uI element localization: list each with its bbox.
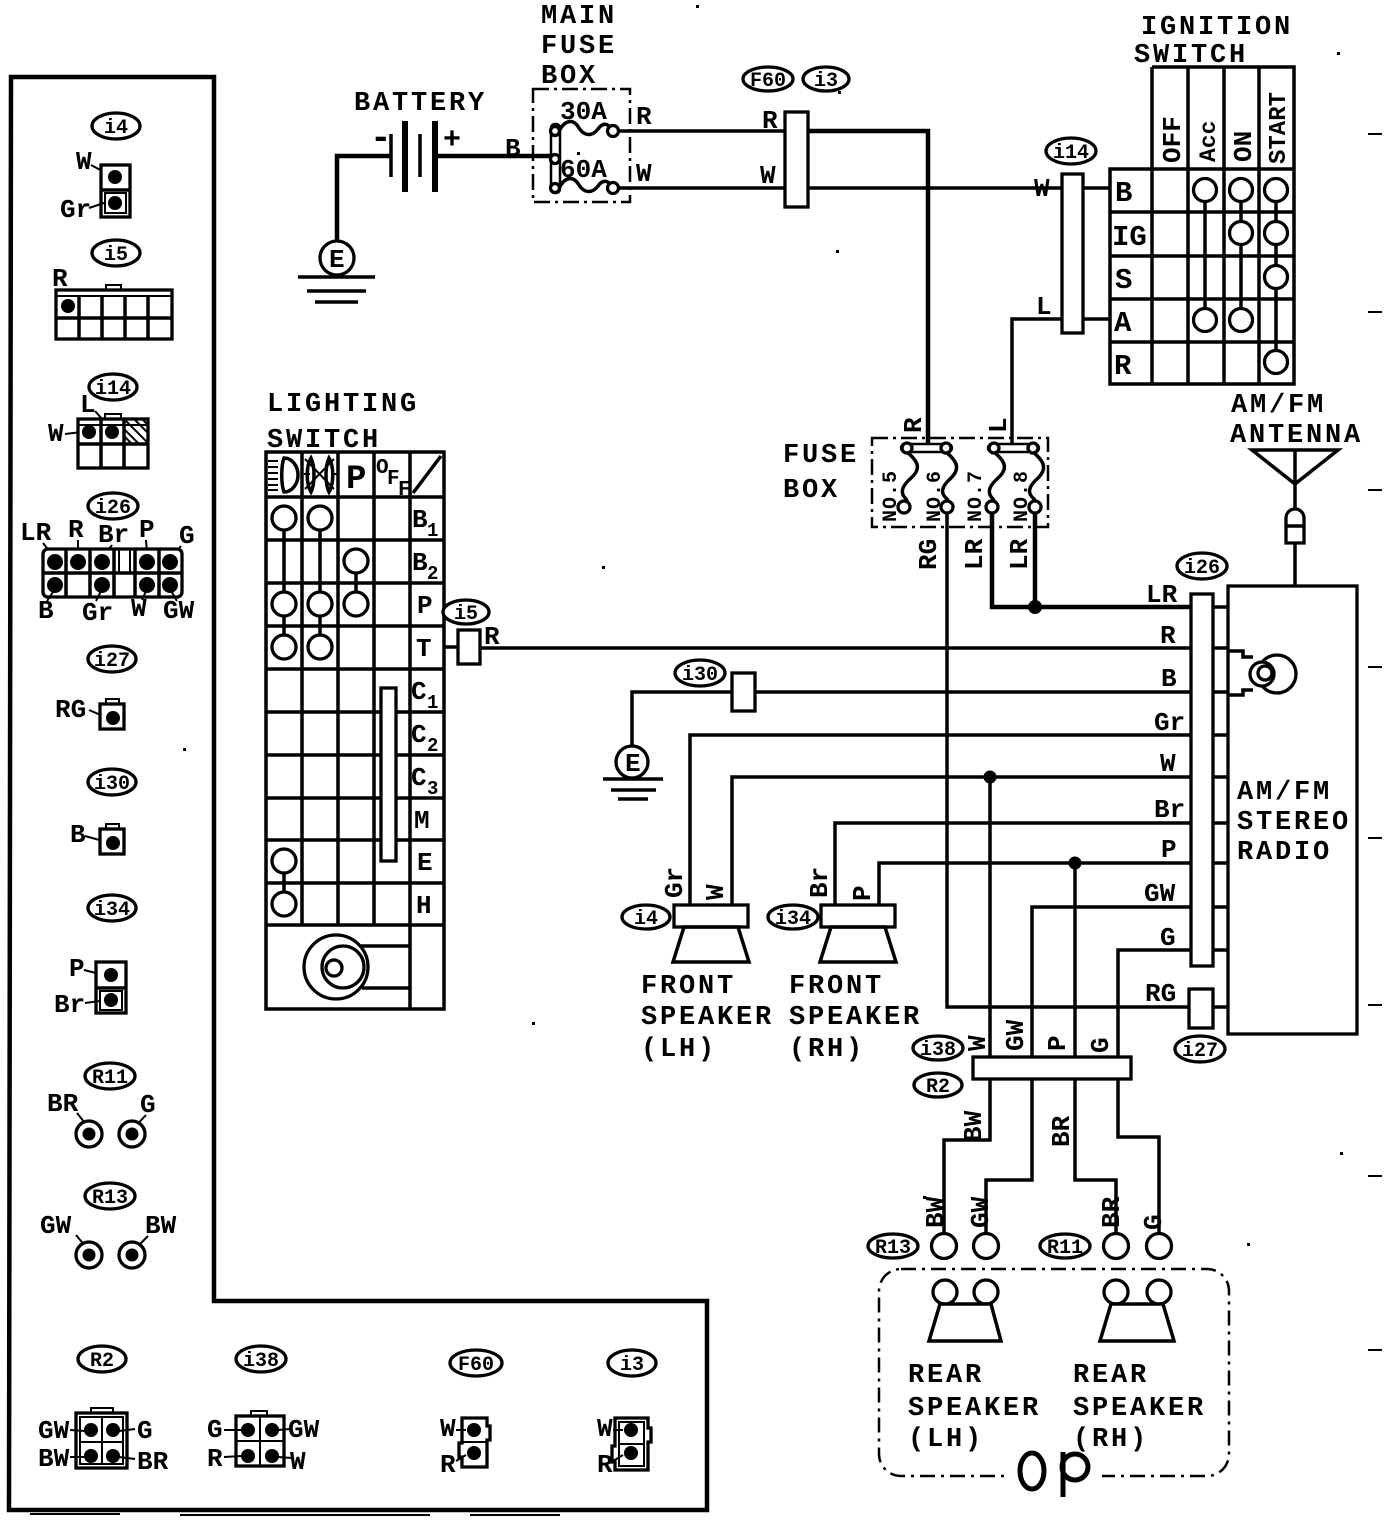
svg-text:R2: R2 xyxy=(90,1350,114,1373)
svg-text:GW: GW xyxy=(163,596,195,626)
svg-text:P: P xyxy=(69,954,85,984)
connector i4 pin label Gr xyxy=(60,195,104,225)
pin label R fuse box input xyxy=(899,417,929,433)
ignition contact link Acc xyxy=(1203,190,1207,320)
svg-text:-: - xyxy=(370,118,392,159)
svg-text:W: W xyxy=(48,419,64,449)
svg-text:P: P xyxy=(417,591,433,621)
lighting switch contacts row T xyxy=(272,635,332,659)
wire Br radio to front speaker RH xyxy=(835,823,1191,905)
connector R13 pin labels GW BW xyxy=(40,1211,177,1254)
svg-text:Gr: Gr xyxy=(82,598,113,628)
connector R2 body xyxy=(76,1408,127,1468)
svg-text:T: T xyxy=(416,634,432,664)
svg-text:E: E xyxy=(329,245,345,275)
connector i5 badge at lighting switch xyxy=(443,600,489,626)
svg-text:GW: GW xyxy=(966,1196,996,1228)
svg-text:i30: i30 xyxy=(682,664,718,687)
wire L ignition switch to fuse box xyxy=(1012,319,1110,445)
connector i27 badge xyxy=(88,646,136,673)
connector i14 pin label W xyxy=(48,419,82,449)
svg-text:i38: i38 xyxy=(920,1039,956,1062)
svg-text:i27: i27 xyxy=(94,650,130,673)
lighting switch contacts row B1 xyxy=(272,506,332,530)
svg-text:BOX: BOX xyxy=(541,62,598,92)
lighting switch row label M xyxy=(414,806,430,836)
lighting switch icon OFF xyxy=(376,457,411,502)
svg-text:R: R xyxy=(440,1450,456,1480)
ignition contacts row IG xyxy=(1230,222,1288,245)
lighting switch contact row B2 xyxy=(344,549,368,573)
front speaker RH labels xyxy=(805,867,878,901)
svg-text:(RH): (RH) xyxy=(789,1035,865,1065)
svg-text:NO.7: NO.7 xyxy=(965,470,988,522)
lighting switch table grid xyxy=(266,452,444,1009)
radio antenna jack xyxy=(1229,651,1296,695)
lighting switch row label C1 xyxy=(411,677,438,714)
fuse box input bar 1 xyxy=(901,443,952,453)
svg-text:BW: BW xyxy=(145,1211,177,1241)
svg-text:Acc: Acc xyxy=(1196,121,1222,162)
svg-text:R: R xyxy=(636,102,652,132)
wire RG fuse NO.6 to connector i27 xyxy=(914,513,1189,1007)
svg-text:i3: i3 xyxy=(620,1354,644,1377)
svg-text:G: G xyxy=(207,1415,223,1445)
lighting switch row label C3 xyxy=(411,763,438,800)
rear speaker RH SP4 xyxy=(1100,1280,1174,1341)
radio pin stubs xyxy=(1213,607,1228,1007)
svg-text:BW: BW xyxy=(959,1110,989,1142)
fuse box input bar 2 xyxy=(988,443,1039,453)
svg-text:FUSE: FUSE xyxy=(541,32,617,62)
wire GW rear connector to speaker xyxy=(986,1079,1032,1234)
svg-text:i38: i38 xyxy=(243,1350,279,1373)
ignition row label B xyxy=(1115,177,1132,210)
svg-text:GW: GW xyxy=(288,1415,320,1445)
pin label RG xyxy=(1145,979,1176,1009)
connector i30 body xyxy=(100,824,124,854)
svg-text:AM/FM: AM/FM xyxy=(1237,778,1332,808)
front speaker LH labels xyxy=(660,867,731,900)
fuse box label xyxy=(783,441,859,506)
connector i30 badge at ground xyxy=(675,660,725,687)
connector i27 badge at radio xyxy=(1175,1036,1225,1063)
svg-text:IGNITION: IGNITION xyxy=(1141,13,1293,43)
svg-text:B: B xyxy=(412,505,428,535)
pin label GW xyxy=(1144,879,1176,909)
svg-text:REAR: REAR xyxy=(1073,1361,1149,1391)
connector i38 pin labels G GW R W xyxy=(207,1415,320,1477)
svg-text:W: W xyxy=(636,159,652,189)
svg-text:SPEAKER: SPEAKER xyxy=(789,1003,922,1033)
svg-text:Gr: Gr xyxy=(1154,708,1185,738)
pin label W at connector F60 xyxy=(760,161,776,191)
svg-text:i34: i34 xyxy=(775,908,811,931)
svg-text:F: F xyxy=(398,479,411,502)
connector R2 badge xyxy=(78,1346,126,1373)
svg-text:SPEAKER: SPEAKER xyxy=(1073,1394,1206,1424)
svg-text:1: 1 xyxy=(427,692,438,714)
svg-text:R: R xyxy=(68,515,84,545)
svg-text:i26: i26 xyxy=(95,497,131,520)
connector i27 pin label RG xyxy=(55,695,103,725)
connector i38 badge xyxy=(236,1346,286,1373)
ground E radio xyxy=(603,746,663,799)
rear speaker RH label xyxy=(1073,1361,1206,1455)
svg-text:RG: RG xyxy=(914,539,944,570)
ignition column label START xyxy=(1266,92,1293,164)
svg-text:W: W xyxy=(701,884,731,900)
svg-text:W: W xyxy=(760,161,776,191)
svg-text:W: W xyxy=(440,1414,456,1444)
ignition switch table xyxy=(1110,67,1294,384)
svg-text:B: B xyxy=(38,596,54,626)
svg-text:W: W xyxy=(76,147,92,177)
connector F60 body xyxy=(459,1418,490,1467)
svg-text:Br: Br xyxy=(805,867,835,898)
svg-text:B: B xyxy=(412,548,428,578)
svg-text:G: G xyxy=(137,1416,153,1446)
ignition row label S xyxy=(1115,264,1132,297)
connector i14 badge xyxy=(1046,138,1096,165)
pin label W xyxy=(1160,749,1176,779)
svg-text:ANTENNA: ANTENNA xyxy=(1230,421,1363,451)
connector i30 pin label B xyxy=(70,820,103,850)
main fuse box outline xyxy=(533,89,630,202)
connector i3 badge xyxy=(803,67,849,93)
rear speaker pin labels BW GW BR G xyxy=(921,1196,1169,1230)
svg-text:C: C xyxy=(411,720,427,750)
svg-text:R: R xyxy=(207,1444,223,1474)
svg-text:Gr: Gr xyxy=(60,195,91,225)
svg-text:Br: Br xyxy=(1154,795,1185,825)
svg-text:i3: i3 xyxy=(814,70,838,93)
ignition contact link ON xyxy=(1239,190,1243,320)
connector i26 badge xyxy=(88,493,138,520)
pin label P xyxy=(1161,835,1177,865)
fuse 30A xyxy=(559,97,619,137)
svg-text:i34: i34 xyxy=(94,899,130,922)
wire G rear connector to speaker xyxy=(1118,1079,1159,1234)
svg-text:LIGHTING: LIGHTING xyxy=(267,390,419,420)
lighting switch icon low beam xyxy=(268,458,298,492)
svg-text:B: B xyxy=(1115,177,1132,210)
main fuse box bus bar xyxy=(551,124,561,193)
svg-text:Br: Br xyxy=(98,520,129,550)
svg-text:3: 3 xyxy=(427,778,438,800)
svg-text:C: C xyxy=(411,763,427,793)
svg-text:W: W xyxy=(963,1035,993,1051)
pin label B xyxy=(1161,664,1177,694)
connector i26 bottom pin labels B Gr W GW xyxy=(38,589,195,628)
lighting switch contacts row P xyxy=(272,592,368,616)
connector R11 pins xyxy=(76,1121,145,1147)
connector R2 pin labels GW G BW BR xyxy=(38,1416,169,1477)
svg-text:R11: R11 xyxy=(92,1067,128,1090)
lighting switch label xyxy=(267,390,419,456)
svg-text:ON: ON xyxy=(1229,131,1259,162)
svg-text:BW: BW xyxy=(38,1444,70,1474)
svg-text:GW: GW xyxy=(40,1211,72,1241)
svg-text:i4: i4 xyxy=(104,117,128,140)
pin label R xyxy=(1160,621,1176,651)
connector R2 badge at rear xyxy=(914,1073,962,1099)
rear harness pins xyxy=(932,1234,1172,1259)
rear speaker LH SP3 xyxy=(929,1280,1001,1341)
connector i38 body xyxy=(236,1411,284,1466)
connector i5 body xyxy=(56,285,172,339)
rear speaker LH label xyxy=(908,1361,1041,1455)
svg-text:G: G xyxy=(1160,923,1176,953)
ignition row label IG xyxy=(1112,221,1147,254)
svg-text:F60: F60 xyxy=(458,1354,494,1377)
svg-text:(LH): (LH) xyxy=(908,1425,984,1455)
lighting switch row label B1 xyxy=(412,505,438,542)
svg-text:R: R xyxy=(1160,621,1176,651)
svg-text:G: G xyxy=(140,1090,156,1120)
connector i4 body xyxy=(101,165,130,217)
fuse 60A xyxy=(559,155,619,194)
svg-text:P: P xyxy=(1161,835,1177,865)
svg-text:IG: IG xyxy=(1112,221,1147,254)
wire B radio to ground xyxy=(632,692,1191,747)
connector i4 pin label W xyxy=(76,147,106,177)
wire W radio to front speaker LH xyxy=(732,777,1191,905)
svg-text:Br: Br xyxy=(54,990,85,1020)
svg-text:RG: RG xyxy=(1145,979,1176,1009)
svg-text:A: A xyxy=(1114,307,1132,340)
wire Gr radio to front speaker LH xyxy=(690,735,1191,905)
ignition column label Acc xyxy=(1196,121,1222,162)
connector i27 at radio xyxy=(1189,989,1213,1028)
main fuse box label xyxy=(541,2,617,92)
svg-text:LR: LR xyxy=(960,538,990,570)
svg-text:SPEAKER: SPEAKER xyxy=(641,1003,774,1033)
lighting switch row label C2 xyxy=(411,720,438,757)
pin label W at connector i14 xyxy=(1034,174,1050,204)
svg-text:(LH): (LH) xyxy=(641,1035,717,1065)
wire P branch to rear xyxy=(1069,857,1082,1059)
wire R to fuse box input xyxy=(808,131,928,445)
svg-text:W: W xyxy=(597,1414,613,1444)
ignition row label A xyxy=(1114,307,1132,340)
lighting switch slider xyxy=(381,688,396,861)
ignition switch label xyxy=(1134,13,1293,71)
battery BAT1 xyxy=(370,118,461,192)
svg-text:E: E xyxy=(417,848,433,878)
lighting switch icon head lamp xyxy=(304,458,337,492)
svg-text:L: L xyxy=(984,417,1014,433)
svg-text:i5: i5 xyxy=(454,603,478,626)
svg-text:LR: LR xyxy=(20,518,52,548)
pin label Gr xyxy=(1154,708,1185,738)
svg-text:BR: BR xyxy=(47,1089,79,1119)
svg-text:P: P xyxy=(1043,1035,1073,1051)
svg-text:GW: GW xyxy=(1144,879,1176,909)
svg-text:R2: R2 xyxy=(926,1076,950,1099)
connector i27 body xyxy=(100,699,124,729)
front speaker RH label xyxy=(789,972,922,1065)
pin label L fuse box input xyxy=(984,417,1014,433)
connector legend panel border xyxy=(9,77,707,1515)
radio label xyxy=(1237,778,1351,868)
lighting switch contact links column 2 xyxy=(318,518,322,647)
wire BR rear connector to speaker xyxy=(1047,1079,1116,1234)
svg-text:LR: LR xyxy=(1005,538,1035,570)
lighting switch header slash xyxy=(413,456,441,493)
connector i30 pass-through xyxy=(732,673,755,711)
svg-text:P: P xyxy=(848,885,878,901)
connector R13 pins xyxy=(76,1242,145,1268)
svg-text:R: R xyxy=(899,417,929,433)
front speaker LH label xyxy=(641,972,774,1065)
connector R11 badge xyxy=(85,1063,135,1090)
antenna label xyxy=(1230,391,1363,451)
connector i14 body xyxy=(78,414,148,468)
svg-text:P: P xyxy=(346,461,366,499)
connector i5 body at lighting switch xyxy=(458,630,480,664)
page margin ticks xyxy=(1368,134,1382,1350)
pin label Br xyxy=(1154,795,1185,825)
connector i5 badge xyxy=(92,240,140,267)
connector i38 badge at rear xyxy=(913,1036,963,1062)
svg-text:OFF: OFF xyxy=(1158,116,1188,163)
connector i4 badge xyxy=(92,113,140,140)
svg-text:E: E xyxy=(625,749,641,779)
connector i5 pin label R xyxy=(52,264,68,301)
ignition contact row S xyxy=(1265,266,1288,289)
connector i3 body xyxy=(612,1418,651,1470)
connector R11 pin labels BR G xyxy=(47,1089,156,1133)
svg-text:W: W xyxy=(131,594,147,624)
svg-text:i27: i27 xyxy=(1182,1040,1218,1063)
lighting switch contact links column 1 xyxy=(282,518,286,904)
svg-text:BR: BR xyxy=(137,1447,169,1477)
front speaker RH SP2 xyxy=(820,905,896,962)
front speaker LH SP1 xyxy=(673,905,749,962)
pin label L at connector i14 xyxy=(1036,292,1052,322)
wire BW rear connector to speaker xyxy=(944,1079,990,1234)
svg-text:1: 1 xyxy=(427,520,438,542)
svg-text:BATTERY: BATTERY xyxy=(354,89,487,119)
connector i3 pin labels W R xyxy=(597,1414,623,1480)
svg-text:B: B xyxy=(505,134,521,164)
svg-text:G: G xyxy=(1139,1214,1169,1230)
connector R11 badge at rear xyxy=(1040,1234,1090,1260)
svg-text:2: 2 xyxy=(427,563,438,585)
svg-text:+: + xyxy=(443,124,461,158)
svg-text:REAR: REAR xyxy=(908,1361,984,1391)
wire P radio to front speaker RH xyxy=(879,863,1191,905)
svg-text:FUSE: FUSE xyxy=(783,441,859,471)
svg-text:LR: LR xyxy=(1146,580,1178,610)
connector i30 badge xyxy=(88,769,136,796)
svg-text:STEREO: STEREO xyxy=(1237,808,1351,838)
connector i34 pin label Br xyxy=(54,990,100,1020)
svg-text:C: C xyxy=(411,677,427,707)
connector R13 badge xyxy=(85,1183,135,1210)
lighting switch row label P xyxy=(417,591,433,621)
svg-text:i5: i5 xyxy=(104,244,128,267)
svg-text:GW: GW xyxy=(38,1416,70,1446)
pin label LR xyxy=(1146,580,1178,610)
svg-text:B: B xyxy=(70,820,86,850)
svg-text:BOX: BOX xyxy=(783,476,840,506)
svg-text:BR: BR xyxy=(1047,1115,1077,1147)
svg-text:NO.5: NO.5 xyxy=(880,470,903,522)
ignition row label R xyxy=(1114,350,1132,383)
connector i14 badge xyxy=(89,374,137,401)
pin label R at connector i5 xyxy=(484,622,500,652)
wire R lighting switch to radio xyxy=(480,646,1191,650)
wire LR fuse NO.7 to radio xyxy=(960,513,1191,607)
ground E battery xyxy=(298,241,375,302)
lighting switch rheostat xyxy=(304,935,410,999)
svg-text:2: 2 xyxy=(427,735,438,757)
connector F60/i3 pass-through xyxy=(785,112,808,207)
lighting switch contact link column 3 xyxy=(354,561,358,604)
svg-text:RG: RG xyxy=(55,695,86,725)
ignition contact link START xyxy=(1274,190,1278,362)
ignition contacts row B xyxy=(1194,179,1288,202)
svg-text:R: R xyxy=(762,106,778,136)
lighting switch row label T xyxy=(416,634,432,664)
svg-text:BW: BW xyxy=(921,1196,951,1228)
svg-text:FRONT: FRONT xyxy=(641,972,736,1002)
radio box xyxy=(1228,586,1357,1034)
fuse NO.7 xyxy=(965,452,1004,522)
antenna plug xyxy=(1286,509,1304,586)
connector i4 badge at speaker xyxy=(622,905,670,931)
svg-text:W: W xyxy=(1034,174,1050,204)
connector i34 badge xyxy=(88,895,136,922)
svg-text:H: H xyxy=(416,891,432,921)
svg-text:i14: i14 xyxy=(95,378,131,401)
pin label G xyxy=(1160,923,1176,953)
wire battery negative to ground xyxy=(337,156,390,241)
lighting switch row label H xyxy=(416,891,432,921)
connector i38/R2 bar xyxy=(973,1057,1131,1079)
svg-text:FRONT: FRONT xyxy=(789,972,884,1002)
connector i14 pin label L xyxy=(80,390,110,428)
svg-text:Gr: Gr xyxy=(660,867,690,898)
svg-text:B: B xyxy=(1161,664,1177,694)
svg-text:R: R xyxy=(1114,350,1132,383)
ignition contacts row A xyxy=(1194,309,1253,332)
ignition contact row R xyxy=(1265,351,1288,374)
svg-text:BR: BR xyxy=(1097,1196,1127,1228)
pin label R at connector F60 xyxy=(762,106,778,136)
ignition column label OFF xyxy=(1158,116,1188,163)
svg-text:START: START xyxy=(1266,92,1293,164)
rear harness labels W GW P G xyxy=(963,1019,1116,1053)
connector i34 body xyxy=(96,962,126,1013)
svg-text:W: W xyxy=(1160,749,1176,779)
lighting switch row label B2 xyxy=(412,548,438,585)
wire W main fuse box to connector i14 xyxy=(618,159,1110,189)
svg-text:GW: GW xyxy=(1001,1019,1031,1051)
battery label xyxy=(354,89,487,119)
connector i26 body xyxy=(43,549,182,597)
wire battery positive B to main fuse box xyxy=(435,134,552,164)
fuse NO.6 xyxy=(924,452,957,522)
svg-text:(RH): (RH) xyxy=(1073,1425,1149,1455)
lighting switch row label E xyxy=(417,848,433,878)
svg-text:i30: i30 xyxy=(94,773,130,796)
svg-text:R11: R11 xyxy=(1047,1237,1083,1260)
svg-text:S: S xyxy=(1115,264,1132,297)
antenna ANT1 xyxy=(1252,450,1338,509)
